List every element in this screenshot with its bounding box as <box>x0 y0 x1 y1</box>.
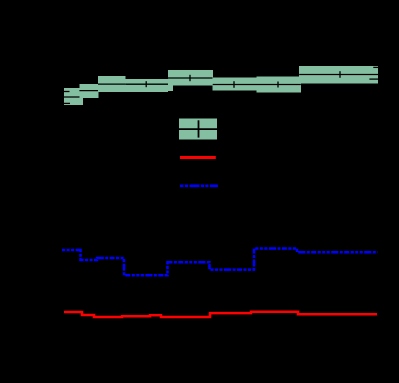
legend red line marker <box>180 156 216 159</box>
blue dashed step histogram <box>62 249 378 276</box>
uncertainty band bin 3 <box>98 76 126 92</box>
uncertainty band bin 5 (tall middle) <box>168 70 213 91</box>
uncertainty band bin 1 (left cluster) <box>64 88 83 105</box>
uncertainty band bin 7 <box>257 76 301 92</box>
red step histogram <box>64 312 377 317</box>
uncertainty band bin 6 <box>213 78 257 91</box>
legend box marker (green band sample with cross) <box>179 119 218 140</box>
uncertainty band bin 2 <box>79 84 98 98</box>
legend blue dashed line marker <box>180 185 218 188</box>
uncertainty band bin 8 (wide right) <box>299 66 378 83</box>
uncertainty band bin 4 <box>126 79 168 92</box>
